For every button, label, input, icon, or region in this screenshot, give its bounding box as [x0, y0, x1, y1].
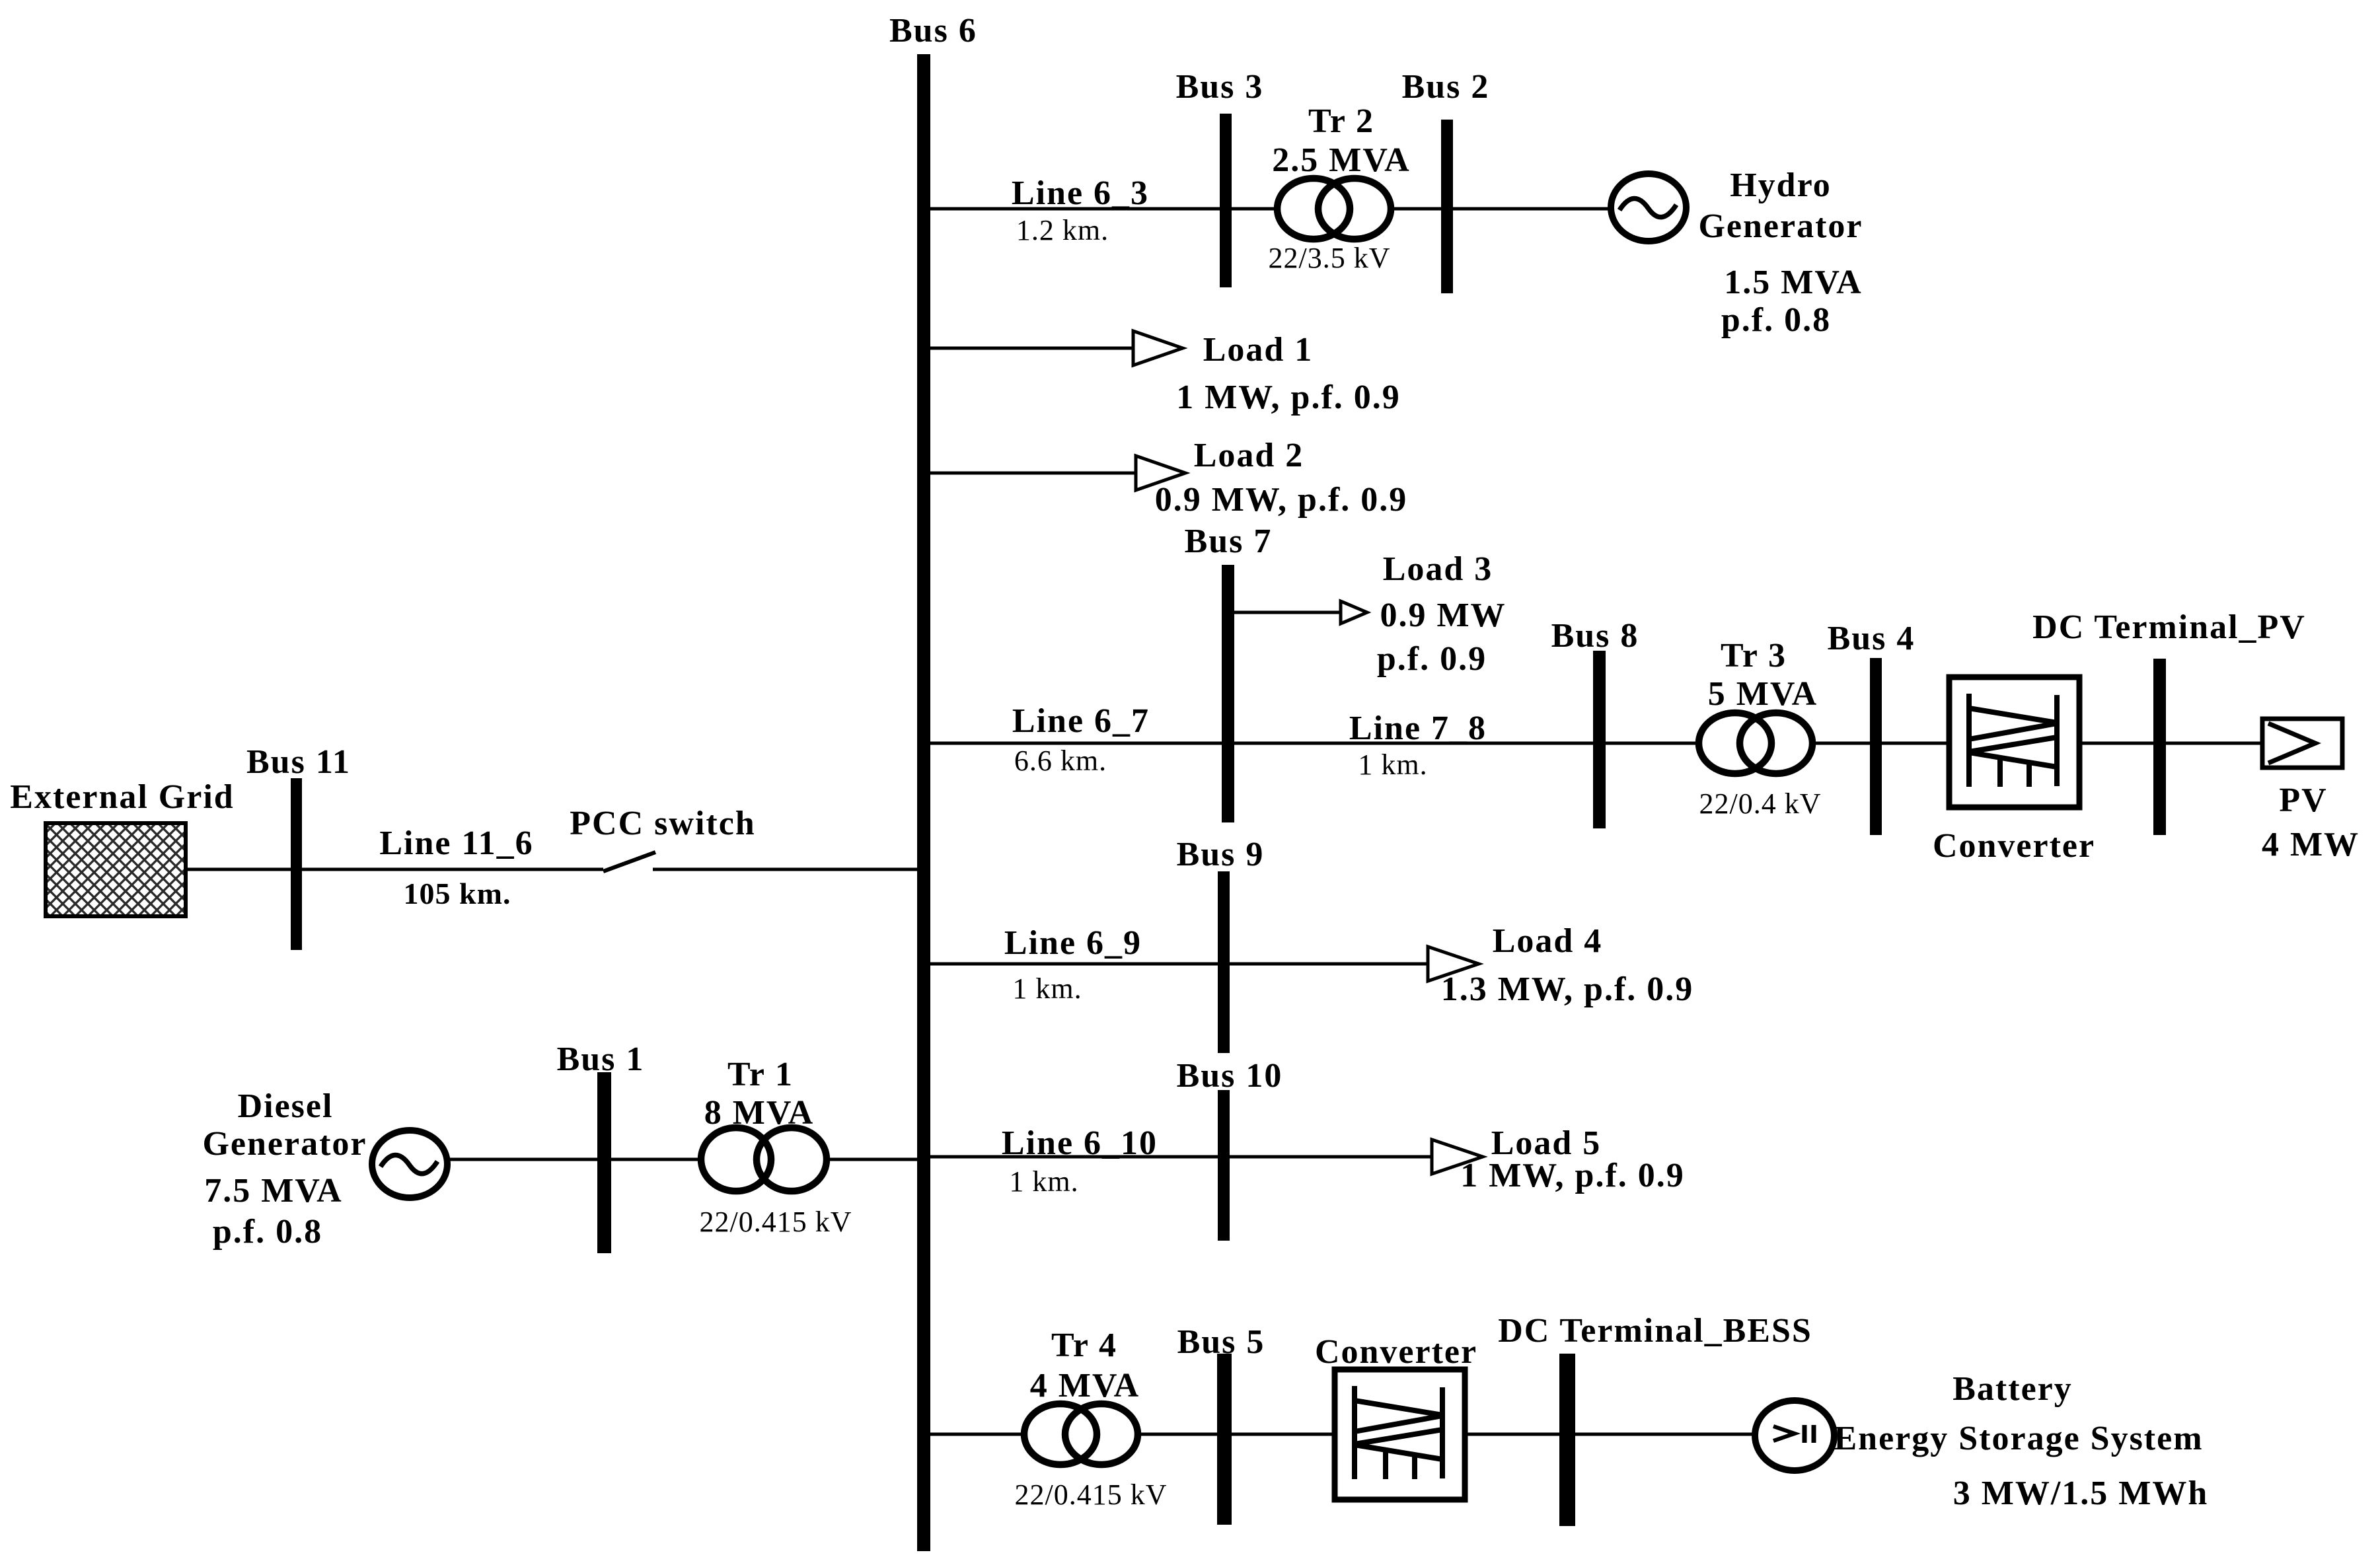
wire Tr1 to Bus6: [829, 1158, 917, 1161]
svg-text:1 km.: 1 km.: [1358, 748, 1427, 781]
svg-text:Tr 4: Tr 4: [1051, 1327, 1117, 1364]
svg-text:DC Terminal_PV: DC Terminal_PV: [2032, 608, 2306, 646]
svg-text:p.f. 0.8: p.f. 0.8: [213, 1213, 322, 1251]
bus Bus 1: [597, 1072, 611, 1253]
wire Bus5 to BESS converter: [1232, 1433, 1335, 1436]
svg-text:Diesel: Diesel: [238, 1087, 334, 1125]
svg-text:Generator: Generator: [1698, 207, 1863, 245]
wire Tr4 to Bus5: [1139, 1433, 1217, 1436]
transformer Tr 4: [1024, 1404, 1138, 1465]
bus Bus 8: [1593, 651, 1606, 828]
svg-text:External Grid: External Grid: [10, 778, 234, 816]
load arrow Load 2: [1136, 456, 1185, 490]
svg-text:1.2 km.: 1.2 km.: [1016, 214, 1109, 246]
svg-text:4 MW: 4 MW: [2262, 826, 2360, 863]
wire BESS converter to DC Terminal_BESS: [1465, 1433, 1559, 1436]
wire Line 6_9 segment Bus6 to Bus9 and Load 4: [930, 963, 1429, 966]
bus Bus 6: [917, 54, 930, 1551]
svg-text:7.5 MVA: 7.5 MVA: [204, 1172, 342, 1210]
load arrow Load 1: [1133, 331, 1183, 365]
svg-text:22/0.4 kV: 22/0.4 kV: [1699, 787, 1822, 820]
svg-text:1 km.: 1 km.: [1009, 1165, 1078, 1198]
wire Bus4 to PV converter: [1882, 742, 1949, 745]
PV source PV: [2262, 719, 2342, 768]
svg-text:Bus 6: Bus 6: [889, 12, 977, 50]
node DC Terminal_BESS: [1559, 1354, 1575, 1526]
svg-text:1 MW, p.f. 0.9: 1 MW, p.f. 0.9: [1176, 379, 1401, 416]
svg-text:Generator: Generator: [202, 1125, 367, 1163]
svg-text:Bus 3: Bus 3: [1176, 68, 1264, 106]
svg-text:PV: PV: [2279, 782, 2327, 819]
svg-text:1.3 MW, p.f. 0.9: 1.3 MW, p.f. 0.9: [1441, 970, 1694, 1008]
load arrow Load 3: [1341, 601, 1367, 624]
transformer Tr 1: [701, 1128, 827, 1191]
bus Bus 2: [1441, 120, 1453, 293]
svg-text:Converter: Converter: [1315, 1333, 1477, 1371]
svg-text:Load 4: Load 4: [1493, 922, 1603, 960]
bus Bus 10: [1218, 1090, 1230, 1241]
wire Bus1 to Tr1: [611, 1158, 699, 1161]
wire Line 11_6 segment Bus11 to PCC switch: [302, 868, 603, 871]
svg-text:Bus 1: Bus 1: [557, 1040, 645, 1078]
wire Tr2 to Bus2: [1394, 207, 1441, 211]
svg-text:p.f. 0.8: p.f. 0.8: [1721, 301, 1831, 339]
svg-text:Bus 11: Bus 11: [246, 743, 351, 781]
bus Bus 4: [1870, 658, 1882, 835]
wire Line 6_3 segment Bus6 to Bus3: [930, 207, 1220, 211]
svg-text:0.9 MW, p.f. 0.9: 0.9 MW, p.f. 0.9: [1155, 481, 1408, 519]
svg-text:3 MW/1.5 MWh: 3 MW/1.5 MWh: [1953, 1475, 2209, 1512]
svg-text:Battery: Battery: [1952, 1370, 2072, 1408]
svg-text:Line 7_8: Line 7_8: [1349, 710, 1487, 747]
svg-text:1 km.: 1 km.: [1012, 972, 1082, 1005]
svg-text:6.6 km.: 6.6 km.: [1014, 745, 1107, 777]
transformer Tr 2: [1277, 178, 1391, 239]
load arrow Load 5: [1432, 1140, 1483, 1174]
load arrow Load 4: [1428, 947, 1479, 981]
wire PCC switch to Bus6: [653, 868, 917, 871]
battery Battery Energy Storage System: [1755, 1401, 1834, 1471]
svg-text:p.f. 0.9: p.f. 0.9: [1377, 640, 1487, 678]
node DC Terminal_PV: [2153, 659, 2166, 835]
wire DC Terminal_PV to PV: [2166, 742, 2262, 745]
svg-text:22/0.415 kV: 22/0.415 kV: [1015, 1478, 1168, 1511]
wire Tr3 to Bus4: [1816, 742, 1870, 745]
wire Load 1 feeder: [930, 347, 1134, 350]
switch PCC switch blade: [603, 852, 655, 871]
svg-text:Line 6_10: Line 6_10: [1002, 1124, 1158, 1162]
svg-text:Bus 4: Bus 4: [1828, 620, 1915, 657]
svg-text:1 MW, p.f. 0.9: 1 MW, p.f. 0.9: [1460, 1157, 1685, 1194]
generator Diesel Generator: [372, 1130, 447, 1198]
wire PV converter to DC Terminal_PV: [2079, 742, 2153, 745]
svg-text:Load 3: Load 3: [1383, 550, 1493, 588]
wire Bus6 to Tr4: [930, 1433, 1023, 1436]
svg-text:Line 11_6: Line 11_6: [379, 824, 533, 862]
wire Load 2 feeder: [930, 472, 1137, 475]
wire Load 3 feeder: [1234, 611, 1342, 614]
svg-text:Tr 3: Tr 3: [1721, 637, 1787, 674]
converter PV converter: [1949, 677, 2079, 807]
svg-text:8 MVA: 8 MVA: [704, 1094, 814, 1132]
wire Line 6_10 segment Bus6 to Bus10 and Load 5: [930, 1155, 1433, 1159]
svg-text:Hydro: Hydro: [1730, 166, 1832, 204]
svg-text:4 MVA: 4 MVA: [1030, 1367, 1140, 1404]
svg-text:Bus 9: Bus 9: [1177, 836, 1265, 873]
svg-text:0.9 MW: 0.9 MW: [1380, 597, 1506, 634]
wire DC Terminal_BESS to Battery: [1575, 1433, 1756, 1436]
svg-text:DC Terminal_BESS: DC Terminal_BESS: [1498, 1312, 1812, 1350]
wire Line 6_7 segment Bus6 to Bus7: [930, 742, 1222, 745]
bus Bus 5: [1217, 1354, 1232, 1525]
svg-text:22/3.5 kV: 22/3.5 kV: [1269, 242, 1391, 274]
svg-text:Tr 2: Tr 2: [1308, 102, 1374, 140]
svg-text:PCC switch: PCC switch: [570, 805, 755, 842]
transformer Tr 3: [1699, 713, 1812, 774]
svg-text:Load 1: Load 1: [1203, 331, 1314, 369]
wire Bus8 to Tr3: [1606, 742, 1695, 745]
wire Diesel Generator to Bus 1: [449, 1158, 597, 1161]
bus Bus 3: [1220, 114, 1232, 287]
svg-text:Line 6_3: Line 6_3: [1012, 174, 1149, 212]
converter BESS converter: [1335, 1369, 1465, 1500]
wire Bus2 to Hydro Generator: [1453, 207, 1610, 211]
wire Bus3 to Tr2: [1232, 207, 1275, 211]
bus Bus 9: [1218, 871, 1230, 1053]
svg-text:Bus 7: Bus 7: [1185, 523, 1273, 560]
svg-text:2.5 MVA: 2.5 MVA: [1272, 141, 1410, 179]
svg-text:Line 6_7: Line 6_7: [1012, 702, 1150, 740]
svg-text:Converter: Converter: [1933, 827, 2095, 865]
svg-text:1.5 MVA: 1.5 MVA: [1724, 264, 1862, 301]
svg-text:Bus 5: Bus 5: [1177, 1323, 1265, 1361]
svg-text:22/0.415 kV: 22/0.415 kV: [700, 1206, 852, 1238]
svg-text:Tr 1: Tr 1: [727, 1056, 794, 1093]
svg-text:5 MVA: 5 MVA: [1708, 675, 1818, 713]
generator Hydro Generator: [1611, 174, 1686, 241]
svg-text:Load 2: Load 2: [1194, 437, 1304, 474]
wire Line 7_8 segment Bus7 to Bus8: [1234, 742, 1593, 745]
svg-text:Bus 8: Bus 8: [1551, 617, 1639, 655]
external grid symbol: [46, 823, 186, 916]
svg-text:105 km.: 105 km.: [404, 877, 511, 910]
bus Bus 11: [291, 778, 302, 950]
svg-text:Bus 10: Bus 10: [1177, 1057, 1283, 1095]
svg-text:Line 6_9: Line 6_9: [1004, 924, 1142, 962]
bus Bus 7: [1222, 565, 1234, 822]
svg-text:Energy Storage System: Energy Storage System: [1834, 1420, 2203, 1457]
svg-text:Bus 2: Bus 2: [1402, 68, 1490, 106]
wire External Grid to Bus 11: [186, 868, 291, 871]
